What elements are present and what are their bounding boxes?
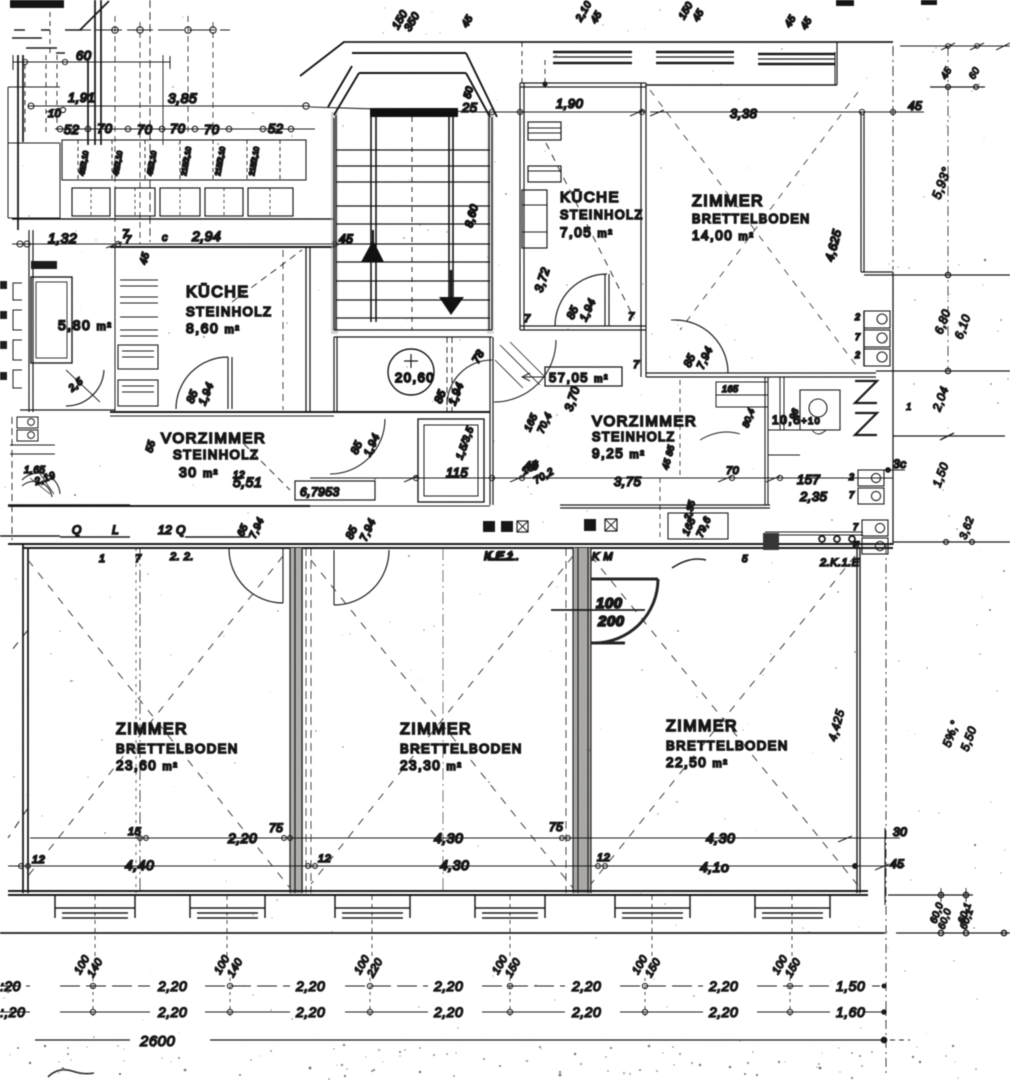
wire plinth extension xyxy=(896,932,1010,934)
room1 X diagonals xyxy=(28,556,290,888)
wire dashed diagonal kitchen xyxy=(232,250,302,302)
wire dim 3,75 xyxy=(560,475,893,482)
WC inner lines lower xyxy=(768,430,840,455)
wall under-stair bottom xyxy=(334,411,490,413)
wall right lower xyxy=(892,272,894,545)
circle stamp 20,60 xyxy=(388,349,434,395)
room2 X diagonals xyxy=(311,556,573,888)
fixture window boxes on left wall xyxy=(528,122,561,140)
wire dim 60 xyxy=(13,55,170,70)
wall right section bottom xyxy=(765,532,863,535)
wire dim 1,90 xyxy=(478,109,646,116)
label 2 7 2 tiny xyxy=(854,312,861,360)
wall top-right corner mark xyxy=(921,0,937,5)
wall rooms top double xyxy=(8,544,893,548)
room1 extra diagonal stubs xyxy=(8,630,28,838)
door arc hatched top-left xyxy=(494,340,556,402)
stair stringers xyxy=(371,117,376,322)
door kitchen leaf xyxy=(228,357,232,409)
door zimmer arc xyxy=(675,320,728,373)
wall verticals under top xyxy=(522,42,545,84)
wire dashed verticals WC xyxy=(660,380,680,540)
box 165/796 bottom xyxy=(668,513,728,539)
doodle bottom-left xyxy=(48,1070,94,1077)
wall left vertical xyxy=(29,230,33,412)
plinth line xyxy=(0,932,885,934)
wall below shaft xyxy=(310,505,490,507)
wall bottom of 5,80 xyxy=(20,409,115,411)
wall closet row of 5 boxes xyxy=(72,188,293,216)
stair arrow up xyxy=(372,230,374,262)
wall under-stair left vertical xyxy=(334,337,337,412)
vertical axis dashdot xyxy=(892,46,894,270)
wall below stairs xyxy=(334,330,492,337)
wall step segments corner xyxy=(12,30,82,53)
wall segment xyxy=(8,504,130,506)
scan fog xyxy=(0,0,1,1)
wall kitchen top double xyxy=(520,83,646,87)
wall stair top thick bar xyxy=(370,108,458,117)
fixture top window 1 xyxy=(553,52,632,63)
door kitchen arc xyxy=(176,357,228,409)
fixture tall cupboard xyxy=(522,190,547,248)
window center dashes xyxy=(95,896,792,958)
fixture counter lines xyxy=(118,280,158,406)
door kitchen right leaf xyxy=(605,274,609,326)
label 45/210 small rotated xyxy=(77,146,261,176)
wall black bar xyxy=(31,261,57,269)
shaft box double xyxy=(418,419,484,502)
wall strip box with dividers xyxy=(62,140,306,180)
wall room3 right double xyxy=(857,548,860,893)
window 6 xyxy=(755,896,830,918)
label rotated nums top middle xyxy=(574,0,815,32)
door room2 leaf xyxy=(333,550,335,605)
wire top dim extension arrows xyxy=(900,43,1010,50)
label 85/194 rotated xyxy=(565,297,599,323)
wall zimmer bottom xyxy=(646,373,876,377)
wall corner shade room3 top xyxy=(763,533,779,550)
fixture black squares K.E.L. xyxy=(483,521,495,532)
fixture small boxes with circles xyxy=(10,417,55,454)
wall kitchen left inner xyxy=(114,247,116,412)
room1 center axis dashdot xyxy=(139,548,141,893)
wall step up right xyxy=(836,42,838,85)
stair center dashed xyxy=(411,117,413,330)
door arc vorzimmer left xyxy=(330,419,385,474)
wall kitchen right double xyxy=(306,247,310,412)
door room1 arc xyxy=(229,549,283,603)
door stamp 100/200 room3 xyxy=(591,579,658,643)
wire dashed diagonal kitchen right xyxy=(546,143,634,318)
door arc bottom-left xyxy=(22,473,60,497)
wall right vertical low xyxy=(885,545,887,1075)
radiator N glyphs xyxy=(855,381,877,435)
vertical connectors between dim rows xyxy=(93,978,790,1020)
door room2 arc xyxy=(334,550,389,605)
wall stair shading bands xyxy=(331,112,338,334)
label 85/194 rotated stamp xyxy=(433,381,467,407)
wall zimmer top xyxy=(646,84,837,86)
wall kitchen bottom double xyxy=(520,326,646,330)
swoosh mark room3 top xyxy=(672,559,706,568)
wire dim row 52-70 xyxy=(55,126,315,132)
stair arrow down xyxy=(450,270,452,300)
wall zimmer left double xyxy=(641,83,646,377)
wire dim chain middle xyxy=(310,107,478,112)
wall hall left double xyxy=(490,337,493,505)
label 85/194 rotated xyxy=(682,345,716,371)
wall stub left xyxy=(0,535,60,537)
wire dim y275 xyxy=(864,274,1010,276)
wall vorzimmer bottom xyxy=(8,505,310,507)
wire dim line row top xyxy=(65,16,230,244)
label tiny 2 7 xyxy=(848,472,860,550)
wall diagonal top xyxy=(80,1,109,30)
wall hall bottom xyxy=(560,505,770,508)
wire dim row y986 xyxy=(0,983,886,988)
window 2 xyxy=(190,896,265,918)
door arc room 5,80 xyxy=(66,370,104,406)
wall step right xyxy=(861,271,893,273)
wall left double xyxy=(23,544,28,893)
wall vorzimmer top double xyxy=(110,415,334,417)
WC partition verticals xyxy=(765,377,768,505)
stamp box 679532 xyxy=(295,481,375,500)
fixture boxes with circles right low xyxy=(858,470,888,554)
wire dashed diagonal vorzimmer xyxy=(244,444,290,490)
label 150/350 rotated xyxy=(390,8,423,34)
wall kitchen top xyxy=(110,246,334,248)
label 165/704 rotated mid xyxy=(523,411,555,435)
room3 X diagonals xyxy=(591,556,860,888)
wall brackets left edge xyxy=(13,283,22,388)
wall bottom extension right xyxy=(888,894,973,896)
door arc right of circle xyxy=(447,360,492,405)
stair treads xyxy=(336,150,490,318)
wire kitchen axis dashed xyxy=(282,250,284,410)
wire dim y542 xyxy=(893,541,1010,543)
wire dim 2600 xyxy=(35,1039,884,1041)
wire dim line 3,85 xyxy=(28,103,310,113)
node black dot xyxy=(542,81,547,86)
wire dim 115 xyxy=(310,475,640,482)
door room1 leaf xyxy=(282,549,284,603)
wire corner dash verticals xyxy=(25,3,57,135)
label rotated tiny col xyxy=(660,443,697,521)
fixture squares right pair xyxy=(584,519,596,531)
wall stair left/right verticals xyxy=(334,115,336,330)
wire dashed X diagonals xyxy=(650,90,858,368)
room2 center axis dashdot xyxy=(442,548,444,893)
wire dim y371 xyxy=(876,370,1010,372)
wall counter tall rect xyxy=(31,277,72,363)
window 1 xyxy=(55,896,135,918)
wire dim row y1012 xyxy=(0,1009,886,1014)
node circles ooo xyxy=(819,536,825,542)
partition wall rooms 2-3 shaded xyxy=(573,548,591,893)
label 165/702 rotated lower xyxy=(520,459,556,487)
label 85/194 rotated lower xyxy=(344,517,379,543)
wall left outer dashed xyxy=(11,417,13,540)
wire dim row y866 xyxy=(8,864,905,870)
wall thick bar top-left xyxy=(10,0,64,8)
wire dim right 157 line xyxy=(864,468,905,473)
fixture stack right boxes with circles xyxy=(864,311,890,366)
fixture top window 2 xyxy=(656,52,734,63)
WC fixture circle xyxy=(800,390,840,430)
wire dim y87 xyxy=(930,86,985,88)
wall stair chamfer outline outer xyxy=(300,42,344,76)
wall building top line xyxy=(343,41,893,43)
partition wall rooms 1-2 shaded xyxy=(290,548,303,893)
wire dim y436 xyxy=(893,435,1005,437)
wall small steps left xyxy=(8,87,60,218)
label 85/194 rotated xyxy=(349,432,383,458)
wall kitchen bottom xyxy=(110,411,334,413)
wire dim 3,38 xyxy=(650,109,924,116)
wall left verticals xyxy=(18,55,23,230)
door kitchen right arc xyxy=(555,274,607,326)
wire dim 1,32 / 2,94 xyxy=(12,241,342,248)
label 85/194 rotated xyxy=(185,381,217,407)
stamp box 57,05 xyxy=(545,367,622,386)
wire dim row y838 xyxy=(30,836,900,842)
wall bottom double xyxy=(8,891,868,895)
fixture top window 3 xyxy=(758,54,835,64)
window 3 xyxy=(335,896,410,918)
label rotated 45 45 xyxy=(939,65,983,81)
label 65/794 rotated xyxy=(236,516,267,540)
wall left edge tabs xyxy=(0,281,7,289)
label window sizes rotated xyxy=(72,953,804,980)
window 4 xyxy=(475,896,545,918)
window 5 xyxy=(615,896,690,918)
WC shelf lines xyxy=(716,382,768,407)
wall top blob xyxy=(836,0,854,6)
wall kitchen left double xyxy=(520,83,524,330)
wall horizontal y219 xyxy=(12,218,334,220)
wall zimmer right double xyxy=(861,112,864,272)
